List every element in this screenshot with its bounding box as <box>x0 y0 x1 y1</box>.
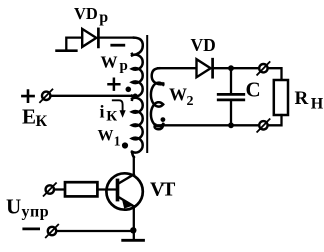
label EK <box>22 105 48 131</box>
svg-text:W: W <box>169 85 187 105</box>
capacitor C lead top <box>230 68 232 93</box>
wire terminal to base resistor <box>54 188 65 190</box>
terminal EK <box>40 89 52 102</box>
label VDp <box>74 4 108 26</box>
terminal Uupr minus <box>46 225 58 238</box>
wire RH bottom <box>268 115 282 125</box>
minus sign (VDp cathode polarity) <box>112 44 124 47</box>
label VD <box>191 35 216 55</box>
label C <box>246 78 261 102</box>
svg-text:W: W <box>101 53 118 72</box>
winding W2 <box>151 68 163 129</box>
svg-text:VT: VT <box>150 178 176 200</box>
minus sign (Uupr) <box>24 227 39 230</box>
svg-text:H: H <box>311 96 324 113</box>
svg-text:упр: упр <box>22 204 50 221</box>
label VT <box>150 178 176 200</box>
svg-text:C: C <box>246 78 261 102</box>
wire VD cathode to output terminal <box>213 67 260 69</box>
capacitor C <box>218 94 244 100</box>
terminal output minus <box>257 119 269 132</box>
svg-text:К: К <box>106 109 117 125</box>
label iK with arrow <box>100 102 118 125</box>
polarity dot Wp <box>126 87 132 93</box>
emitter arrowhead VT <box>122 199 133 209</box>
label Uupr <box>6 194 49 220</box>
node B (rectifier output / C top) <box>228 65 234 71</box>
wire terminal to RH top <box>268 68 282 80</box>
node D (C bottom junction) <box>228 122 234 128</box>
transistor VT <box>106 173 142 209</box>
polarity dot W2 <box>161 117 166 122</box>
svg-text:U: U <box>6 194 21 218</box>
svg-text:К: К <box>36 113 48 130</box>
node E (emitter / Uupr junction) <box>130 227 136 233</box>
plus sign (EK terminal) <box>22 91 33 102</box>
svg-text:VD: VD <box>191 35 216 55</box>
svg-text:p: p <box>120 58 128 74</box>
polarity dot W1 <box>122 142 128 148</box>
wire base resistor to VT base <box>97 188 116 190</box>
label W2 <box>169 85 194 110</box>
svg-text:R: R <box>295 88 309 109</box>
node A (Wp / W1 / EK junction) <box>133 94 138 99</box>
terminal output plus <box>257 62 269 75</box>
capacitor C lead bottom <box>230 101 232 125</box>
wire VDp cathode to winding Wp <box>98 36 134 38</box>
label W1 <box>98 128 121 149</box>
terminal Uupr plus <box>44 183 56 196</box>
diode VD <box>197 59 213 77</box>
winding W1 <box>132 96 143 157</box>
ground (common bar, VDp return) <box>57 49 77 52</box>
svg-text:VD: VD <box>74 4 98 23</box>
svg-text:W: W <box>98 128 114 145</box>
resistor RH <box>274 80 288 115</box>
wire W1 to collector <box>133 157 135 174</box>
plus sign (winding polarity) <box>109 79 120 90</box>
transformer core <box>146 36 148 152</box>
arrow iK (collector current) <box>113 100 126 118</box>
wire Wp bottom to node A <box>132 95 136 97</box>
resistor R base <box>65 182 97 196</box>
wire VDp anode lead <box>66 38 82 50</box>
svg-text:2: 2 <box>187 94 194 109</box>
diode VDp <box>82 29 98 47</box>
wire EK to node A <box>51 95 136 97</box>
wire emitter to ground <box>133 207 135 239</box>
wire W2 bottom rail <box>155 124 260 126</box>
label RH <box>295 88 324 113</box>
svg-text:i: i <box>100 102 105 122</box>
svg-text:E: E <box>22 105 36 129</box>
svg-text:1: 1 <box>114 134 121 149</box>
winding Wp <box>132 38 143 97</box>
wire W2 top to diode VD <box>158 67 196 69</box>
ground <box>123 239 144 242</box>
label Wp <box>101 53 128 75</box>
svg-text:p: p <box>99 9 108 26</box>
wire Uupr minus to emitter node <box>56 230 133 232</box>
